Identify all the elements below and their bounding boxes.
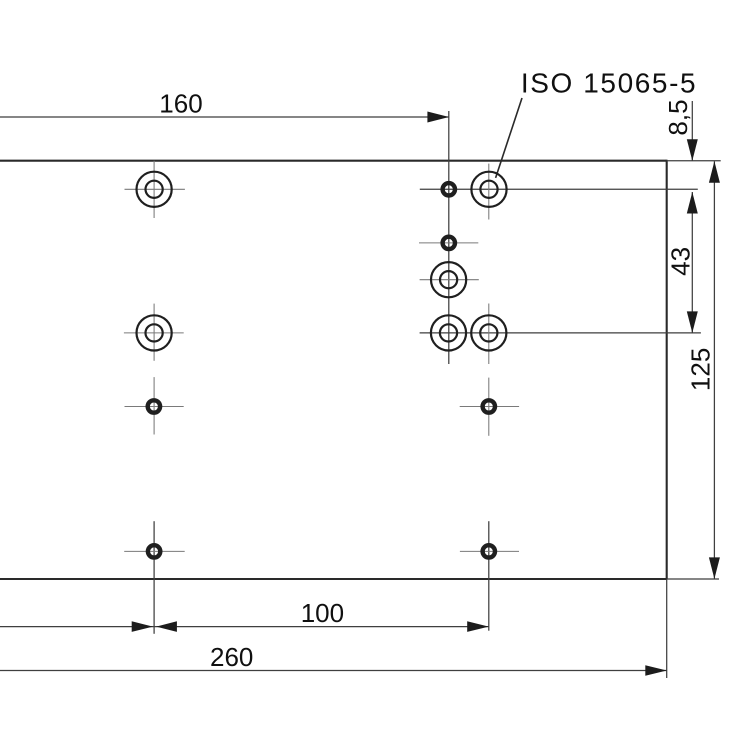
dimension line 43 <box>691 192 693 333</box>
dimension line 100 <box>0 626 489 628</box>
hole L3 ring <box>148 400 160 412</box>
centerline column M <box>448 111 450 364</box>
crosshair hole R2 vertical <box>488 304 490 365</box>
svg-text:100: 100 <box>301 598 344 628</box>
svg-text:43: 43 <box>665 247 695 276</box>
hole L2 outer <box>137 315 172 350</box>
hole L4 ring <box>148 545 160 557</box>
arrow 160 right <box>427 112 449 123</box>
hole R3 ring <box>483 400 495 412</box>
arrow into 100 left (from off-screen dim) <box>132 621 153 632</box>
hole M4 outer <box>431 262 466 297</box>
svg-text:260: 260 <box>210 642 253 672</box>
crosshair hole L1 <box>125 161 185 218</box>
hole M5 inner <box>440 324 457 341</box>
arrow 125 down <box>709 557 720 579</box>
top edge extension line <box>667 160 721 162</box>
crosshair hole R1 vertical <box>488 164 490 220</box>
arrow 43 up <box>687 192 698 214</box>
crosshair hole M4 <box>420 279 479 281</box>
leader line ISO <box>496 98 522 178</box>
svg-text:8,5: 8,5 <box>663 99 693 135</box>
dimension line 8,5 <box>691 101 693 161</box>
arrow 100 left <box>156 621 177 632</box>
plate right edge <box>666 160 668 579</box>
hole L1 inner <box>146 181 163 198</box>
hole row line 3 <box>420 332 701 334</box>
bottom edge extension line <box>667 578 719 580</box>
hole row line 1 <box>420 188 698 190</box>
hole R2 outer <box>471 315 506 350</box>
crosshair hole L2 <box>124 304 184 361</box>
crosshair hole L3 <box>125 377 184 434</box>
svg-text:125: 125 <box>686 348 716 391</box>
dimension line 125 <box>713 161 715 579</box>
hole R1 inner <box>480 181 497 198</box>
svg-text:ISO 15065-5: ISO 15065-5 <box>521 67 697 98</box>
hole M3 ring <box>443 237 455 249</box>
crosshair hole R3 <box>460 378 519 436</box>
hole L2 inner <box>146 324 163 341</box>
arrow 100 right <box>467 621 489 632</box>
hole R4 ring <box>483 545 495 557</box>
crosshair hole L4 <box>124 550 185 552</box>
hole M1 ring <box>443 183 455 195</box>
hole L1 outer <box>137 172 172 207</box>
crosshair hole M3 <box>419 242 478 244</box>
extension line column R bottom <box>488 521 490 631</box>
crosshair hole R4 horizontal <box>460 550 519 552</box>
hole M5 outer <box>431 315 466 350</box>
hole M4 inner <box>440 271 457 288</box>
right edge extension line <box>666 579 668 678</box>
hole R1 outer <box>471 172 506 207</box>
dimension line 260 <box>0 670 667 672</box>
svg-text:160: 160 <box>159 89 202 119</box>
arrow 43 down <box>687 311 698 333</box>
arrow 125 up <box>709 161 720 183</box>
plate top edge <box>0 160 667 162</box>
arrow 260 right <box>645 665 667 676</box>
dimension line 160 <box>0 116 449 118</box>
extension line column L bottom <box>153 521 155 634</box>
arrow 8,5 down <box>687 139 698 161</box>
hole R2 inner <box>480 324 497 341</box>
plate bottom edge <box>0 578 667 580</box>
